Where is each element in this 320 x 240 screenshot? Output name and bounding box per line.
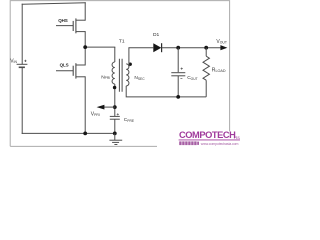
VPRI arrow [97,105,105,110]
svg-text:COMPOTECH: COMPOTECH [179,130,236,140]
svg-text:T1: T1 [119,39,125,45]
wire node to QLS drain [84,47,86,65]
winding NSEC [126,64,129,86]
svg-text:QLS: QLS [60,62,69,67]
svg-text:VIN: VIN [10,58,17,64]
capacitor COUT [171,48,185,97]
wire QHS source to node [84,32,86,47]
capacitor CPRE [110,116,120,133]
svg-text:VPRI: VPRI [91,111,100,117]
wire bottom rail [22,132,115,134]
ground symbol [109,133,122,144]
winding NPRI [112,62,115,84]
wire QHS drain vertical [84,3,86,20]
secondary phase dot [129,62,132,65]
transistor QLS [56,63,85,78]
wire left vertical lower [21,67,23,133]
CPRE plus sign [117,113,119,115]
battery plus sign [24,60,26,62]
wire QLS source to bottom rail [84,77,86,134]
node COUT bottom junction [176,95,180,99]
wire VPRI stub [104,106,115,108]
primary phase dot [113,86,117,90]
resistor RLOAD [203,48,209,97]
battery VIN source [17,64,28,67]
wire secondary bottom lead [126,86,206,97]
svg-text:CPRE: CPRE [124,117,135,123]
wire secondary top lead [129,48,153,67]
node COUT top junction [176,46,180,50]
svg-text:COUT: COUT [187,75,197,81]
svg-text:D1: D1 [153,32,160,38]
wire primary top lead [114,47,116,62]
wire primary bottom lead [114,84,116,116]
wire switch node to primary [85,46,115,48]
svg-text:NSEC: NSEC [134,75,145,81]
ground node junction [113,132,117,136]
VOUT arrow [220,45,227,50]
logo CJK block [179,141,199,145]
COUT plus sign [181,68,183,70]
wire left vertical upper [21,4,23,64]
node VPRI junction [113,105,117,109]
svg-text:VOUT: VOUT [216,39,227,45]
svg-text:NPRI: NPRI [101,74,110,80]
wire output rail [162,47,221,49]
svg-text:www.compotechasia.com: www.compotechasia.com [201,142,239,146]
wire top rail [22,3,85,4]
border frame [10,1,229,147]
transistor QHS [56,18,85,33]
svg-text:RLOAD: RLOAD [212,67,226,73]
svg-text:QHS: QHS [58,18,68,23]
node SW junction [83,45,87,49]
core lines [119,59,122,92]
node RLOAD top junction [204,46,208,50]
node QLS source junction [83,132,87,136]
COUT minus sign [180,78,182,80]
